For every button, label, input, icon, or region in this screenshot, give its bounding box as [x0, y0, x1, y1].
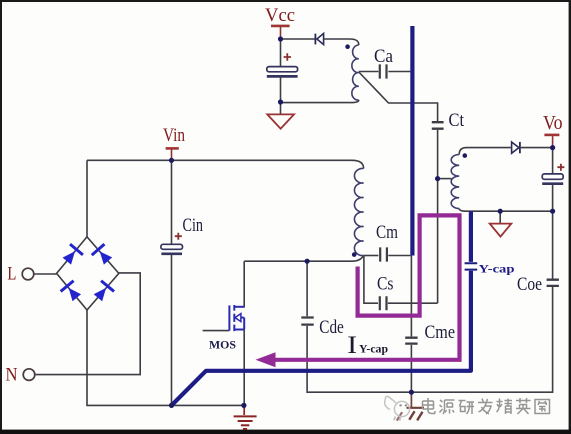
svg-text:Vo: Vo: [543, 112, 563, 134]
svg-text:Vin: Vin: [163, 125, 185, 146]
svg-text:Ct: Ct: [449, 110, 465, 131]
svg-text:Cde: Cde: [319, 317, 344, 338]
svg-text:Y-cap: Y-cap: [479, 264, 515, 276]
svg-text:Cs: Cs: [377, 274, 394, 295]
svg-text:I: I: [347, 332, 357, 359]
svg-text:Cm: Cm: [376, 222, 398, 243]
svg-text:N: N: [6, 365, 18, 386]
svg-text:Cin: Cin: [183, 215, 204, 236]
svg-text:MOS: MOS: [209, 340, 236, 352]
svg-text:Coe: Coe: [517, 274, 542, 295]
svg-text:Ca: Ca: [374, 46, 394, 67]
svg-text:Y-cap: Y-cap: [359, 344, 388, 356]
svg-text:L: L: [7, 264, 16, 285]
svg-text:Vcc: Vcc: [265, 5, 295, 26]
svg-text:Cme: Cme: [425, 322, 456, 343]
